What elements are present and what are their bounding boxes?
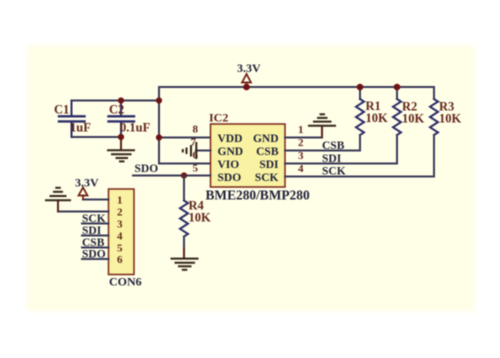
svg-text:SCK: SCK bbox=[255, 172, 279, 184]
svg-text:SDO: SDO bbox=[82, 249, 106, 261]
svg-text:SDI: SDI bbox=[322, 153, 342, 165]
wire pin7 to ground bbox=[196, 150, 211, 152]
svg-text:10K: 10K bbox=[439, 112, 462, 126]
junction dot C2 top bbox=[118, 97, 124, 103]
wire CON6 pin2 bbox=[58, 211, 109, 213]
wire CON6 pin5 CSB bbox=[82, 247, 109, 249]
ground under R4 bbox=[172, 259, 198, 270]
resistor R2 bbox=[393, 87, 401, 164]
svg-text:2: 2 bbox=[298, 137, 304, 149]
svg-text:1: 1 bbox=[298, 124, 304, 136]
svg-text:10K: 10K bbox=[366, 111, 389, 125]
resistor R3 bbox=[430, 87, 438, 177]
wire pin8 VDD bbox=[159, 137, 211, 139]
resistor R4 bbox=[180, 176, 188, 259]
svg-text:VDD: VDD bbox=[218, 133, 243, 145]
svg-text:C2: C2 bbox=[109, 103, 124, 117]
svg-text:GND: GND bbox=[253, 133, 279, 145]
schematic canvas background bbox=[27, 45, 475, 311]
power 3.3V at CON6 bbox=[75, 176, 99, 200]
ground at pin7 (rotated left) bbox=[183, 143, 197, 158]
junction dot rail/cap bus bbox=[156, 97, 162, 103]
capacitor C1 bbox=[59, 101, 85, 138]
svg-text:SCK: SCK bbox=[322, 166, 346, 178]
svg-text:CSB: CSB bbox=[82, 237, 105, 249]
svg-text:SDI: SDI bbox=[259, 159, 279, 171]
svg-text:3.3V: 3.3V bbox=[75, 176, 99, 190]
resistor R1 bbox=[356, 87, 364, 151]
svg-text:VIO: VIO bbox=[218, 159, 240, 171]
svg-text:1uF: 1uF bbox=[70, 121, 91, 135]
svg-text:8: 8 bbox=[193, 124, 199, 136]
svg-text:6: 6 bbox=[117, 254, 123, 266]
svg-text:BME280/BMP280: BME280/BMP280 bbox=[206, 188, 310, 203]
connector CON6 box bbox=[109, 189, 135, 275]
wire CON6 pin4 SDI bbox=[82, 235, 109, 237]
svg-text:C1: C1 bbox=[54, 103, 69, 117]
wire 3.3V top rail bbox=[159, 86, 434, 88]
capacitor C2 bbox=[109, 101, 135, 138]
svg-text:5: 5 bbox=[117, 243, 123, 255]
wire CSB net bbox=[285, 150, 360, 152]
wire pin1 GND to ground bbox=[285, 137, 322, 139]
op-amp/IC U1 box IC2 bbox=[211, 124, 286, 187]
svg-text:4: 4 bbox=[298, 163, 304, 175]
svg-text:SDI: SDI bbox=[82, 225, 102, 237]
junction dot rail pin8 bbox=[156, 134, 162, 140]
ground under C2 bbox=[108, 137, 134, 161]
wire capacitor bottom bus bbox=[72, 136, 122, 138]
wire CON6 pin6 SDO bbox=[82, 258, 109, 260]
wire capacitor top bus bbox=[72, 100, 160, 102]
svg-text:0.1uF: 0.1uF bbox=[120, 121, 151, 135]
ground at CON6 (pointing up) bbox=[46, 188, 70, 212]
wire SDO net bbox=[133, 175, 211, 177]
svg-text:3.3V: 3.3V bbox=[237, 61, 261, 75]
wire CON6 pin3 SCK bbox=[82, 223, 109, 225]
svg-text:2: 2 bbox=[117, 207, 123, 219]
svg-text:10K: 10K bbox=[402, 112, 425, 126]
wire SCK net bbox=[285, 176, 434, 178]
svg-text:CON6: CON6 bbox=[109, 275, 142, 289]
junction dot 3.3V bbox=[243, 84, 250, 91]
wire CON6 pin1 bbox=[83, 199, 109, 201]
svg-text:SDO: SDO bbox=[135, 163, 159, 175]
junction dot R2 bbox=[394, 84, 401, 91]
svg-text:3: 3 bbox=[117, 219, 123, 231]
junction dot R4 tap bbox=[181, 172, 187, 178]
svg-text:4: 4 bbox=[117, 231, 123, 243]
wire SDI net bbox=[285, 163, 397, 165]
svg-text:CSB: CSB bbox=[256, 146, 279, 158]
svg-text:1: 1 bbox=[117, 195, 123, 207]
ground at IC pin1 (pointing up) bbox=[309, 114, 335, 125]
junction dot C2 bottom bbox=[118, 134, 124, 140]
wire rail drop to VDD/VIO bbox=[159, 87, 211, 164]
svg-text:GND: GND bbox=[218, 146, 244, 158]
power 3.3V top bbox=[237, 61, 261, 87]
svg-text:3: 3 bbox=[298, 150, 304, 162]
svg-text:IC2: IC2 bbox=[209, 111, 228, 125]
svg-text:5: 5 bbox=[193, 163, 199, 175]
junction dot R1 bbox=[357, 84, 364, 91]
svg-text:SCK: SCK bbox=[82, 213, 106, 225]
svg-text:CSB: CSB bbox=[322, 140, 345, 152]
svg-text:SDO: SDO bbox=[218, 172, 242, 184]
svg-text:10K: 10K bbox=[189, 211, 212, 225]
